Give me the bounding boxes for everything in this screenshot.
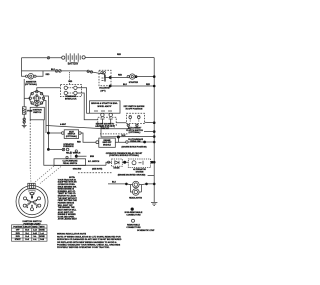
dashed separator row: [100, 133, 128, 135]
key detail terminals: [23, 192, 41, 211]
label brake right: [88, 161, 100, 163]
note paragraph left: [58, 177, 78, 221]
key detail tab: [28, 183, 35, 189]
svg-text:MODEL 42A707: MODEL 42A707: [98, 105, 112, 108]
legend circle symbol: [132, 219, 135, 222]
svg-text:RED: RED: [118, 75, 123, 77]
wire relay right stub: [76, 155, 86, 157]
connector brake top: [66, 156, 68, 158]
label see note: [92, 169, 103, 171]
svg-text:L+A: L+A: [40, 232, 44, 235]
svg-text:NONE: NONE: [39, 230, 45, 232]
connector clutch row: [126, 141, 128, 143]
ignition switch S1 rotary: [29, 90, 45, 106]
wire relay dashed drop: [75, 152, 77, 159]
svg-text:G: G: [27, 207, 29, 209]
wire attachment to bus: [116, 121, 154, 123]
svg-text:NONE: NONE: [39, 236, 45, 238]
label brake below: [73, 169, 82, 171]
alternator dashed box: [128, 159, 150, 168]
svg-text:GROUND: GROUND: [73, 169, 82, 171]
junction alternator out: [151, 161, 154, 164]
key detail outer circle: [16, 186, 48, 218]
svg-text:(OPT): (OPT): [101, 91, 106, 93]
svg-text:POSITION: POSITION: [13, 226, 22, 228]
wire ignition dashed drop: [29, 120, 31, 170]
label row 175: [118, 175, 146, 177]
svg-text:CONNECTORS: CONNECTORS: [126, 215, 141, 217]
table grid: [12, 225, 48, 241]
dashed boundary row: [78, 172, 112, 174]
label key detail caption: [23, 221, 42, 223]
label wire red: [117, 54, 122, 56]
label clutch box: [103, 140, 113, 147]
junction ign riser: [47, 132, 50, 151]
key detail terminal letters: [27, 196, 38, 209]
wire ignition left stub: [24, 97, 30, 99]
svg-text:POSITION CHART: POSITION CHART: [23, 222, 41, 225]
svg-text:RED: RED: [146, 84, 151, 86]
svg-text:BRN: BRN: [90, 156, 95, 158]
svg-text:WITH: WITH: [40, 226, 45, 228]
svg-text:PEDAL SWITCH: PEDAL SWITCH: [63, 162, 78, 165]
svg-text:ATOR LEAVES SEAT: ATOR LEAVES SEAT: [58, 218, 78, 221]
svg-text:PRESENCE: PRESENCE: [63, 146, 74, 148]
svg-text:BRIGGS & STRATTON ENG.: BRIGGS & STRATTON ENG.: [91, 102, 118, 105]
headlight lamp 1: [133, 181, 140, 188]
wire left fuse drop: [23, 79, 25, 118]
engine box: [90, 101, 121, 113]
wire run row sloping: [48, 126, 131, 129]
svg-text:AMMETER: AMMETER: [26, 81, 37, 84]
svg-text:(OPTIONAL): (OPTIONAL): [25, 83, 37, 86]
label seat wire: [77, 142, 81, 144]
note paragraph bottom: [57, 233, 122, 249]
label starter: [129, 81, 139, 84]
svg-text:N.C. SWITCH: N.C. SWITCH: [88, 161, 100, 163]
svg-text:A-WHT: A-WHT: [60, 123, 67, 126]
headlight lamp 2: [133, 189, 140, 196]
svg-text:DIODE: DIODE: [114, 168, 121, 170]
wire dot drop: [117, 137, 119, 142]
wire top battery feed: [22, 57, 155, 59]
svg-text:INTERLOCK: INTERLOCK: [65, 98, 77, 100]
label clutch row: [128, 138, 144, 143]
svg-text:(CONTROL MODULE OPTIONAL): (CONTROL MODULE OPTIONAL): [109, 154, 139, 157]
svg-text:(OPTIONAL): (OPTIONAL): [129, 131, 141, 134]
label headlight wire: [112, 182, 117, 184]
key detail trapezoid: [29, 191, 36, 195]
label interlock below: [65, 95, 77, 100]
svg-text:S: S: [36, 207, 38, 209]
junction center dot: [117, 136, 120, 139]
svg-text:MODULE: MODULE: [103, 145, 112, 147]
table text: [13, 225, 45, 241]
label engine: [91, 102, 118, 108]
svg-text:(OPTIONAL): (OPTIONAL): [66, 135, 77, 138]
label ammeter: [25, 81, 37, 87]
solenoid posts: [101, 72, 106, 82]
solenoid dashed box: [99, 70, 111, 86]
wire magneto ground drop: [101, 126, 154, 137]
wire alternator to bus: [151, 161, 155, 163]
label seat box: [66, 130, 77, 138]
battery B1: [62, 53, 85, 61]
junction diode out: [123, 161, 126, 164]
seat switch box: [62, 130, 82, 139]
svg-text:RED: RED: [46, 74, 50, 76]
wire starter to bus: [136, 76, 154, 78]
connector J2 pair on ammeter row: [55, 70, 61, 73]
key detail chords: [26, 195, 38, 208]
wire diode feed: [106, 162, 128, 165]
label brake box: [62, 160, 78, 166]
label alternator: [133, 168, 146, 173]
ground right: [151, 202, 157, 205]
label wire run: [60, 123, 67, 126]
attachment connectors below: [127, 124, 138, 126]
connector J4 pair on slope: [87, 70, 93, 73]
brake switch box: [54, 159, 86, 166]
junction headlight: [125, 183, 148, 186]
label interlock top: [68, 81, 72, 83]
engine internal marks: [94, 110, 112, 112]
diode dashed box: [112, 159, 123, 166]
svg-text:(SEE NOTE): (SEE NOTE): [92, 169, 103, 171]
label solenoid: [99, 87, 110, 92]
svg-text:CIRCUIT: CIRCUIT: [24, 226, 32, 228]
wire solenoid bottom to bus: [110, 85, 154, 87]
svg-text:START: START: [15, 238, 22, 241]
label wire bottom: [118, 75, 151, 137]
svg-text:G+M: G+M: [40, 239, 44, 241]
solenoid terminal top: [109, 76, 112, 79]
svg-text:STARTER: STARTER: [129, 81, 139, 84]
wire seat to shutoff box: [81, 133, 96, 142]
svg-text:RED: RED: [68, 81, 72, 83]
svg-text:BLK: BLK: [122, 135, 127, 137]
svg-text:NOTE: IF WIRING INSULATION IS: NOTE: IF WIRING INSULATION IS CUT, WORN,…: [57, 236, 121, 239]
wire clutch row to bus: [115, 141, 154, 143]
interlock contacts: [64, 86, 77, 95]
svg-text:B: B: [31, 206, 33, 208]
connector J1 on battery wire: [47, 57, 49, 59]
ammeter M1: [26, 73, 37, 79]
headlight rails: [126, 184, 154, 192]
attachment clutch dashed box: [127, 113, 145, 123]
connector J3 pair: [23, 118, 25, 123]
bus right vertical: [153, 58, 155, 202]
starter M2: [127, 74, 137, 79]
connector into shutoff box: [96, 141, 99, 144]
svg-text:RED: RED: [77, 142, 81, 144]
solenoid terminal bottom: [109, 85, 112, 88]
dashed pointer lines to key detail: [30, 166, 61, 184]
part number: [137, 229, 155, 232]
wire attachment lower to bus: [144, 131, 154, 133]
svg-text:A+L: A+L: [33, 238, 37, 241]
svg-text:RUN: RUN: [16, 236, 21, 238]
svg-text:MAKE: MAKE: [32, 225, 38, 228]
svg-text:BATTERY: BATTERY: [68, 62, 79, 65]
relay circle small: [75, 150, 77, 152]
spark plugs: [100, 119, 112, 124]
wire ammeter to riser: [36, 71, 43, 76]
spark plug terminals: [101, 113, 113, 116]
label legend dot: [125, 211, 143, 217]
label magneto: [95, 122, 115, 130]
svg-text:CONNECTORS: CONNECTORS: [126, 227, 141, 229]
label key switch positions: [124, 106, 145, 111]
wire interlock feed dashed: [69, 72, 71, 84]
label ignition box: [33, 110, 42, 115]
ignition label box: [30, 107, 44, 120]
attachment clutch contacts: [129, 116, 140, 122]
label presence below: [66, 151, 81, 154]
diode D1: [115, 161, 119, 164]
wire headlight feed left: [108, 183, 126, 185]
presence contacts: [62, 148, 69, 151]
label relay stub: [90, 156, 95, 158]
wire solenoid to starter: [110, 77, 127, 79]
svg-text:RUN: RUN: [16, 233, 21, 235]
wire ignition right feeds: [44, 96, 49, 149]
alternator symbol: [132, 161, 143, 165]
svg-text:M+G: M+G: [25, 230, 30, 232]
wire seat feed: [48, 132, 61, 134]
interlock module dashed box: [61, 84, 82, 96]
label row 155: [106, 152, 143, 157]
wire brake box drop: [69, 164, 71, 166]
clutch box: [99, 138, 116, 147]
label table title: [23, 222, 41, 225]
ground left: [22, 123, 27, 128]
svg-text:SOLENOID: SOLENOID: [99, 87, 110, 89]
label legend circle: [126, 223, 141, 229]
magneto dashed box: [98, 117, 116, 125]
wire presence row: [48, 148, 62, 150]
connector before diode: [108, 161, 110, 163]
label fuse: [27, 111, 33, 113]
label connector j2: [51, 69, 56, 71]
label attachment clutch: [126, 126, 143, 134]
svg-text:BLK: BLK: [112, 182, 117, 184]
svg-text:RELAY SWITCH: RELAY SWITCH: [66, 151, 81, 154]
svg-text:IN OFF POSITION: IN OFF POSITION: [126, 109, 143, 111]
label ammeter wire: [46, 74, 50, 76]
wire ground text row to bus: [148, 175, 155, 177]
svg-text:B+S: B+S: [25, 239, 29, 241]
wire ignition top to interlock: [37, 88, 61, 92]
fuse F1: [22, 107, 26, 114]
svg-text:SYSTEM: SYSTEM: [136, 172, 144, 174]
wire ignition label drop long: [44, 120, 106, 166]
legend dot symbol: [131, 208, 134, 211]
svg-text:OR REPLACED WITH NEW WIRING HA: OR REPLACED WITH NEW WIRING HARNESS TO A…: [57, 241, 117, 244]
svg-text:BLK: BLK: [51, 69, 56, 71]
svg-text:B+A: B+A: [25, 235, 29, 238]
wire left border drop: [22, 58, 26, 76]
svg-text:SERVICING OR DAMAGED IN ANY WA: SERVICING OR DAMAGED IN ANY WAY IT MUST …: [57, 238, 122, 241]
svg-text:(SHOWN IN RUN POSITION): (SHOWN IN RUN POSITION): [121, 147, 146, 149]
svg-text:SWITCH: SWITCH: [33, 112, 41, 114]
wire ammeter row: [22, 71, 111, 78]
junction clutch row: [143, 141, 146, 144]
svg-text:PEDAL SW.: PEDAL SW.: [130, 140, 141, 143]
label row 147: [121, 147, 146, 149]
svg-text:SCHEMATIC-17HP: SCHEMATIC-17HP: [137, 229, 155, 232]
wire interlock right outputs: [77, 88, 98, 120]
svg-text:CIRCUIT: CIRCUIT: [101, 128, 110, 130]
wire presence dashed drop: [70, 151, 72, 159]
svg-text:HEADLIGHTS: HEADLIGHTS: [129, 197, 143, 200]
junction relay: [75, 155, 78, 158]
svg-text:RED: RED: [117, 54, 122, 56]
svg-text:(ENGINE MOUNTED GROUND): (ENGINE MOUNTED GROUND): [118, 175, 146, 177]
svg-text:BLK: BLK: [123, 84, 128, 86]
svg-text:PROPERLY BEFORE OPERATING YOUR: PROPERLY BEFORE OPERATING YOUR TRACTOR.: [57, 246, 110, 249]
svg-text:A+B: A+B: [33, 232, 37, 235]
label presence above: [63, 143, 74, 148]
label headlights: [129, 197, 143, 200]
junction bus dots: [153, 75, 156, 185]
label battery: [68, 62, 79, 65]
svg-text:WIRING REGULATOR NOTE: WIRING REGULATOR NOTE: [57, 233, 87, 236]
label diode: [114, 168, 121, 170]
